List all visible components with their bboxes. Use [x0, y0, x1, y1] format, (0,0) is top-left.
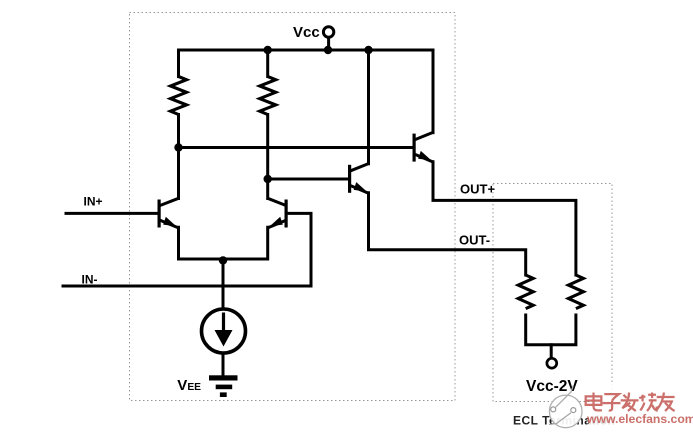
svg-text:VEE: VEE: [177, 377, 201, 394]
svg-text:IN+: IN+: [84, 195, 103, 209]
svg-text:Vcc: Vcc: [293, 24, 320, 41]
svg-text:OUT-: OUT-: [459, 232, 490, 247]
svg-text:IN-: IN-: [82, 273, 98, 287]
svg-text:www.elecfans.com: www.elecfans.com: [586, 412, 693, 426]
svg-text:OUT+: OUT+: [460, 182, 495, 197]
